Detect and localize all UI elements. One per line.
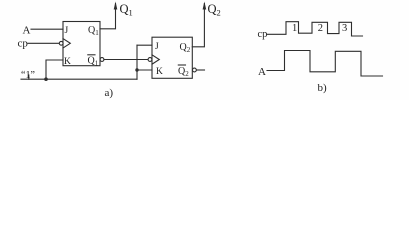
- svg-text:J: J: [65, 26, 69, 36]
- wire K of U2 to rail: [137, 69, 152, 71]
- wire cp to clock of U1: [28, 42, 59, 44]
- wire Q1 output to arrow: [100, 4, 116, 29]
- wire K of U1 down: [46, 60, 63, 79]
- svg-text:a): a): [105, 87, 114, 99]
- overbar of Q1-bar: [88, 54, 95, 56]
- svg-text:2: 2: [318, 23, 323, 34]
- clock bubble U2: [148, 58, 152, 62]
- flip-flop U1 box: [63, 22, 100, 66]
- svg-text:3: 3: [342, 23, 347, 34]
- clock chevron U2: [152, 55, 159, 64]
- wire vertical rail branch: [136, 45, 138, 79]
- wire A to J of U1: [31, 28, 63, 30]
- svg-text:cp: cp: [18, 38, 29, 50]
- svg-text:b): b): [318, 82, 328, 94]
- svg-text:A: A: [23, 25, 31, 37]
- svg-text:K: K: [64, 57, 71, 67]
- clock chevron U1: [63, 39, 70, 48]
- svg-text:“1”: “1”: [21, 70, 35, 81]
- bubble on Q1-bar output: [100, 58, 104, 62]
- junction dot on logic-1 rail: [44, 77, 48, 81]
- waveform cp: [268, 22, 363, 36]
- wire Q2 output to arrow: [192, 4, 204, 47]
- bubble on Q2-bar output: [193, 68, 197, 72]
- junction dot K of U2: [135, 68, 138, 71]
- svg-text:J: J: [155, 42, 159, 52]
- svg-text:1: 1: [292, 23, 297, 34]
- svg-text:A: A: [258, 66, 266, 78]
- svg-text:K: K: [156, 67, 163, 77]
- wire J of U2 to rail: [137, 44, 152, 46]
- arrowhead Q2: [203, 2, 207, 10]
- waveform A: [267, 51, 383, 77]
- flip-flop U2 box: [152, 37, 192, 78]
- wire Q1-bar to clock of U2: [104, 59, 148, 61]
- clock bubble U1: [59, 41, 63, 45]
- overbar of Q2-bar: [178, 64, 185, 66]
- arrowhead Q1: [114, 2, 118, 10]
- svg-text:cp: cp: [258, 29, 268, 40]
- wire tick below label "1": [28, 75, 30, 79]
- logic-1 rail wire: [21, 78, 137, 80]
- wire Q2-bar stub: [197, 69, 205, 71]
